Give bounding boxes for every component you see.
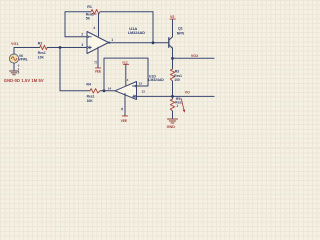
U1A pin 11 stem down [97, 47, 99, 67]
svg-text:1: 1 [176, 104, 178, 108]
svg-text:VEE: VEE [121, 119, 127, 123]
wire R2 to pin3 of U1A [47, 47, 87, 49]
node junction VO / R5 [171, 95, 174, 98]
wire emitter node down to R3 [172, 58, 174, 69]
svg-text:12: 12 [142, 89, 146, 93]
wire feedback top from node A up over R1 to output node [65, 12, 153, 37]
node at U1A output apex [108, 42, 110, 44]
node junction feedback of U1D [103, 89, 106, 92]
wire from output feedback corner down to output [152, 12, 154, 43]
resistor R5 [170, 99, 174, 111]
svg-text:LM324AD: LM324AD [148, 78, 164, 82]
node junction at source/R4 branch [59, 46, 62, 49]
Q1 emitter wire down [172, 48, 174, 58]
transistor Q1 [168, 38, 170, 48]
ground right [168, 119, 178, 123]
svg-text:VG1: VG1 [11, 42, 18, 46]
svg-text:R1: R1 [87, 5, 92, 9]
svg-text:Res1: Res1 [38, 51, 46, 55]
node junction emitter/VO2 [171, 57, 174, 60]
wire VO2 to right edge [173, 57, 215, 59]
svg-text:4: 4 [93, 26, 95, 30]
voltage source VG1 circle [9, 54, 18, 63]
svg-text:VO2: VO2 [191, 54, 198, 58]
red probe arrow at R5 [181, 99, 184, 112]
op-amp U1D (mirrored) [115, 82, 137, 100]
svg-text:VEE: VEE [95, 70, 101, 74]
wire R5 to ground [172, 111, 174, 119]
svg-text:VPWL: VPWL [19, 58, 28, 62]
power VCC above U1D [123, 63, 128, 65]
wire from source up and right to R2 [14, 48, 40, 55]
node junction output/feedback [152, 41, 155, 44]
svg-text:Q1: Q1 [178, 27, 183, 31]
svg-text:5K: 5K [86, 17, 91, 21]
ground left [10, 71, 19, 75]
wire R4 line from left vertical to U1D output [60, 90, 115, 92]
wire VO node down to R5 [172, 96, 174, 99]
power VS top right [170, 18, 175, 20]
svg-text:10K: 10K [38, 55, 45, 59]
svg-text:2: 2 [81, 32, 83, 36]
svg-text:1: 1 [111, 38, 113, 42]
wire source to ground left [13, 63, 15, 71]
svg-text:14: 14 [108, 87, 112, 91]
wire R3 to VO node [172, 81, 174, 96]
svg-text:13: 13 [139, 81, 143, 85]
op-amp U1A [87, 32, 109, 54]
U1D pin 11 stem down [124, 93, 126, 116]
power VEE below U1D [122, 115, 127, 117]
svg-text:3: 3 [81, 43, 83, 47]
resistor R3 [170, 69, 174, 81]
svg-text:100: 100 [174, 78, 180, 82]
svg-text:LM324AD: LM324AD [128, 31, 146, 35]
svg-text:GND-0D 1.5V 1M 5V: GND-0D 1.5V 1M 5V [4, 78, 44, 83]
U1A pin 4 stem to VCC [98, 14, 100, 37]
svg-text:4: 4 [127, 78, 129, 82]
U1D pin 4 stem [125, 65, 127, 87]
power VEE below U1A [95, 67, 100, 69]
resistor R1 [91, 10, 100, 14]
svg-text:R3: R3 [175, 70, 179, 74]
wire U1D pin12 to VO and right edge [137, 95, 214, 97]
svg-text:R2: R2 [38, 42, 43, 46]
resistor R4 [90, 89, 100, 93]
wire feedback box of U1D [104, 58, 148, 91]
svg-text:VO: VO [185, 90, 190, 94]
resistor R2 [40, 45, 48, 49]
Q1 collector wire to VS power [172, 19, 174, 37]
svg-text:VCC: VCC [122, 60, 129, 64]
wire down from node to lower stage [59, 48, 61, 91]
svg-text:10K: 10K [87, 99, 94, 103]
svg-text:GND: GND [167, 125, 176, 129]
svg-text:R4: R4 [86, 82, 91, 86]
svg-text:NPN: NPN [177, 32, 185, 36]
svg-text:11: 11 [93, 60, 97, 64]
svg-text:VCC: VCC [91, 12, 97, 16]
wire U1A output to transistor base [109, 42, 169, 44]
svg-text:VS: VS [170, 15, 175, 19]
wire pin2 input of U1A [65, 36, 87, 38]
svg-text:11: 11 [120, 107, 124, 111]
